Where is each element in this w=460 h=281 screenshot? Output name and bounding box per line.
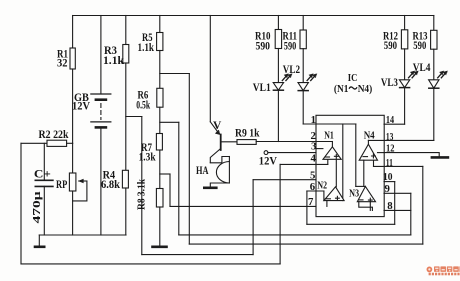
wire pin4 input stub [327, 159, 329, 164]
wire R12 to VL3 [404, 49, 406, 80]
resistor R1 [70, 48, 75, 69]
wire pin12 to ground [384, 153, 439, 157]
LED VL1 emission arrows [282, 75, 287, 81]
svg-text:11: 11 [386, 157, 393, 169]
transistor V emitter arrow [210, 122, 219, 134]
ground (pin12) [432, 156, 448, 159]
LED VL3 [399, 80, 409, 88]
svg-text:HA: HA [196, 165, 209, 177]
LED VL2 [298, 83, 308, 91]
wire R1 column top [72, 16, 74, 49]
wire rail A (bottom left common) [39, 234, 126, 236]
battery GB top lead [100, 16, 102, 95]
wire VL2 cathode to pin1 [302, 91, 304, 124]
LED VL4 emission arrows [438, 72, 443, 78]
wire pin5 net [253, 179, 316, 181]
wire top +12V rail [73, 15, 434, 17]
svg-text:VL4: VL4 [413, 62, 431, 74]
wire R4 bottom to rail A [125, 188, 127, 235]
svg-text:590: 590 [256, 40, 271, 52]
svg-text:VL2: VL2 [283, 64, 300, 76]
resistor R13 [431, 30, 437, 49]
wire R10 column top [277, 16, 279, 30]
battery GB bottom lead [100, 129, 102, 236]
LED VL3 emission arrows [409, 72, 414, 78]
wire N1 + input to N2 out [335, 159, 337, 187]
svg-text:VL1: VL1 [253, 82, 271, 94]
resistor R6 [157, 88, 163, 107]
svg-text:14: 14 [386, 114, 395, 126]
svg-text:N4: N4 [364, 129, 375, 141]
svg-text:1: 1 [311, 114, 316, 126]
wire pin11 riser to rail C [422, 166, 424, 244]
svg-text:IC: IC [348, 72, 358, 84]
wire N2 right feed [342, 124, 344, 201]
wire tap R7/R8 junction to pin7 [160, 173, 170, 175]
wire VL4 cathode to pin13 [433, 88, 435, 140]
wire collector to HA [210, 157, 229, 163]
svg-text:32: 32 [57, 58, 68, 70]
wire R7-R8 [159, 150, 161, 189]
svg-text:4: 4 [311, 153, 317, 165]
wire pin6/pin7 jog and tie riser [306, 191, 308, 224]
svg-text:9: 9 [385, 183, 391, 195]
wire pin11 to riser [374, 165, 423, 167]
resistor R3 [123, 45, 129, 64]
capacitor C (470u) plates [35, 179, 53, 181]
wire pin13 to VL4 [368, 139, 433, 141]
resistor R11 [300, 30, 306, 49]
wire R11 column top [302, 16, 304, 31]
wire riser to rail E [141, 117, 143, 255]
wire VL1 cathode to pin2 net [277, 90, 279, 141]
svg-text:(N1～N4): (N1～N4) [334, 83, 373, 95]
transistor V base bar [220, 135, 222, 151]
wire 12V terminal to pin3 [264, 151, 268, 155]
wire R3 column top [125, 16, 127, 45]
wire pin6 inside stub [323, 191, 325, 201]
op-amp N4 [359, 144, 377, 160]
svg-text:R9 1k: R9 1k [235, 128, 260, 140]
wire R11 to VL2 [302, 49, 304, 83]
svg-text:1.1k: 1.1k [138, 42, 155, 54]
wire pin6 [307, 190, 324, 192]
svg-text:12: 12 [386, 142, 395, 154]
wire pin3 inside stub [316, 148, 323, 150]
wire R9 to pin2 / node R9-VL1 [256, 141, 332, 143]
op-amp N3 [357, 186, 375, 201]
svg-text:R2 22k: R2 22k [39, 129, 70, 141]
svg-text:C+: C+ [34, 167, 51, 181]
wire pin7 net [170, 205, 316, 207]
svg-text:RP: RP [56, 179, 67, 191]
wire pin8 [384, 209, 411, 211]
wire C bottom lead [43, 186, 45, 235]
svg-text:V: V [213, 120, 222, 132]
wire pin8 inside from N3 [369, 202, 371, 211]
wire riser to rail C [188, 74, 190, 245]
wire HA bottom [210, 183, 229, 187]
wire pin4 net [280, 163, 328, 165]
wire R1 bottom to R2 junction [72, 69, 74, 143]
battery GB cell plates [91, 93, 111, 95]
svg-text:1.3k: 1.3k [139, 152, 156, 164]
op-amp N2 [324, 187, 344, 201]
svg-text:13: 13 [386, 131, 394, 143]
ground (below R8) [153, 246, 167, 249]
resistor R9 [237, 140, 256, 145]
svg-text:12V: 12V [72, 100, 91, 112]
svg-text:3: 3 [311, 140, 317, 152]
svg-text:R8 3.1k: R8 3.1k [136, 178, 148, 210]
LED VL2 emission arrows [307, 75, 312, 81]
wire riser to rail B [178, 122, 180, 235]
svg-text:N3: N3 [349, 188, 359, 200]
LED VL1 [273, 83, 283, 91]
resistor R5 [157, 33, 163, 51]
svg-text:0.5k: 0.5k [136, 99, 150, 111]
wire rail E [142, 254, 253, 256]
svg-text:590: 590 [413, 40, 426, 52]
wire right jog pins 9/10 [394, 182, 396, 225]
svg-text:470μ: 470μ [32, 191, 43, 223]
wire R2-RP column [72, 143, 74, 173]
RP wiper arrow [79, 180, 87, 182]
wire left vertical from R2 [20, 143, 22, 264]
wire pin9 [384, 192, 411, 194]
wire N2 - stub to pin7 [326, 201, 328, 207]
wire under-box tie [307, 223, 395, 225]
wire N4 - input down [363, 160, 365, 186]
wire VL3 cathode to pin14 [404, 88, 406, 125]
resistor R4 [122, 170, 128, 188]
buzzer HA [228, 157, 230, 184]
svg-text:N2: N2 [317, 179, 327, 191]
potentiometer RP [69, 173, 76, 191]
wire R12 column top [404, 16, 406, 30]
resistor R7 [156, 134, 162, 151]
wire R13 to VL4 [433, 49, 435, 80]
wire R3 to R4 with tap [125, 63, 127, 170]
svg-text:1.1k: 1.1k [103, 55, 125, 67]
svg-text:8: 8 [387, 200, 393, 212]
resistor R2 [47, 140, 67, 146]
transistor V base lead [221, 141, 237, 143]
wire pin4 riser to rail D [279, 164, 281, 264]
svg-text:N1: N1 [324, 129, 334, 141]
wire pin11 inside stub [373, 160, 375, 166]
wire rail D (bottom) [21, 263, 280, 265]
LED VL4 [429, 80, 439, 88]
wire N3 apex stub [356, 185, 366, 187]
wire R8 to ground [159, 207, 161, 246]
wire pin5 riser to rail E [252, 180, 254, 255]
svg-text:590: 590 [384, 40, 397, 52]
watermark text [434, 266, 460, 272]
wire RP wiper loop [73, 181, 87, 201]
transistor V collector [210, 149, 220, 163]
wire R5 column top [159, 16, 161, 33]
svg-text:10: 10 [383, 171, 393, 183]
svg-text:5: 5 [310, 169, 315, 181]
svg-text:12V: 12V [259, 155, 278, 167]
wire tap R3/R4 junction to riser [126, 116, 142, 118]
wire pin9 riser to rail B [410, 193, 412, 235]
wire V emitter column [209, 16, 211, 122]
wire pin10 [384, 181, 395, 183]
wire R5-R6 with tap [159, 51, 161, 89]
wire N3 output riser [355, 124, 357, 186]
resistor R10 [275, 30, 281, 49]
wire rail C [189, 243, 422, 245]
resistor R8 [156, 189, 163, 208]
op-amp IC box [316, 115, 384, 216]
wire N3 input steps [359, 202, 373, 211]
svg-text:6.8k: 6.8k [101, 179, 121, 191]
wire rail B [179, 234, 411, 236]
ground (below HA) [204, 187, 216, 190]
wire pin12 inside stub [378, 152, 385, 154]
wire C1 top lead [43, 143, 45, 180]
wire tap R5/R6 junction to riser [160, 73, 190, 75]
wire R2 right lead [67, 142, 73, 144]
wire pin14 to VL3 [384, 123, 405, 125]
resistor R12 [401, 30, 407, 49]
wire R6-R7 with tap [159, 107, 161, 133]
ground (left, below rail A) [38, 235, 40, 246]
wire R10 to VL1 [277, 49, 279, 83]
wire pin1 net (VL2 to N3 output) [303, 123, 356, 125]
wire R13 column top [433, 16, 435, 31]
wire R2 left lead [21, 142, 47, 144]
svg-text:6: 6 [310, 181, 316, 193]
svg-text:VL3: VL3 [381, 77, 398, 89]
op-amp N1 [323, 147, 341, 160]
svg-text:590: 590 [284, 40, 297, 52]
watermark logo [427, 267, 433, 273]
wire tap R6/R7 junction [160, 121, 179, 123]
svg-text:7: 7 [308, 196, 314, 208]
wire RP bottom to rail A [72, 191, 74, 235]
